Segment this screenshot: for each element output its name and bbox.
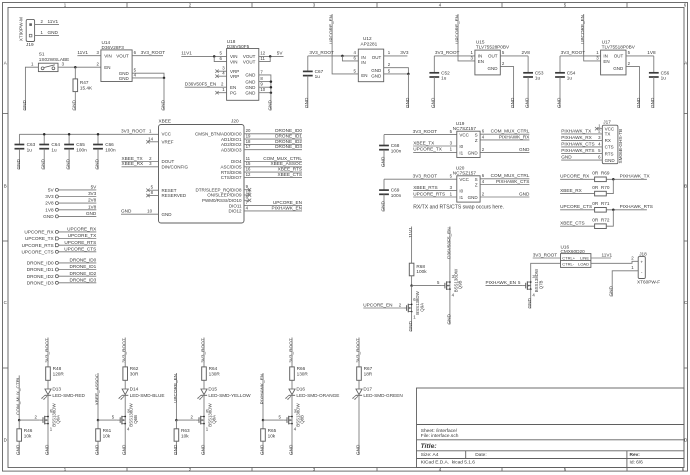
svg-text:ASC/DIO5: ASC/DIO5: [220, 165, 242, 170]
svg-text:XBEE_RX: XBEE_RX: [560, 188, 582, 193]
svg-text:CTRL+: CTRL+: [562, 255, 575, 260]
wire 3V3_ROOT into U15 IN pin 1: [434, 55, 475, 57]
net label 3V3_ROOT at U20: [384, 178, 457, 180]
svg-text:5: 5: [437, 280, 440, 285]
svg-text:4: 4: [246, 205, 249, 210]
svg-text:GND: GND: [119, 76, 130, 81]
svg-text:100n: 100n: [391, 193, 402, 198]
svg-text:5: 5: [518, 280, 521, 285]
svg-text:EN: EN: [230, 85, 236, 90]
U18 GND pins 7-10 wires: [259, 75, 271, 93]
wire DRONE_ID2: [59, 275, 97, 277]
J19 pin 2 wire to 11V1: [35, 24, 59, 26]
wire LED D16 to Q8B drain: [291, 396, 293, 417]
svg-text:5: 5: [354, 68, 357, 73]
svg-text:7: 7: [246, 200, 249, 205]
XBEE pin 9 unconnected: [244, 189, 250, 191]
svg-text:1: 1: [41, 30, 44, 35]
svg-text:UPCORE_RX: UPCORE_RX: [24, 230, 54, 235]
U19 S pin 6 to COM_MUX_CTRL: [480, 133, 529, 135]
svg-text:AP2281: AP2281: [361, 41, 378, 46]
svg-text:1: 1: [450, 147, 453, 152]
svg-text:R67: R67: [364, 366, 373, 371]
wire R67 to LED D17: [358, 380, 360, 389]
svg-text:3V3: 3V3: [400, 50, 409, 55]
svg-text:2V8: 2V8: [522, 50, 531, 55]
svg-text:DRONE_ID0: DRONE_ID0: [27, 261, 54, 266]
svg-text:EN: EN: [104, 65, 110, 70]
svg-text:UPCORE_RTS: UPCORE_RTS: [413, 191, 445, 196]
transistor Q7B BSS138DW: [522, 285, 525, 287]
svg-text:R66: R66: [297, 366, 306, 371]
svg-text:6: 6: [220, 56, 223, 61]
wire UPCORE_RX into R69: [560, 178, 595, 180]
U17 GND pin 2 wire: [626, 67, 640, 73]
svg-text:LED-SMD-YELLOW: LED-SMD-YELLOW: [208, 393, 251, 398]
frame row ticks: [3, 113, 9, 115]
svg-text:DIO12: DIO12: [228, 209, 242, 214]
wire UPCORE_RX: [59, 231, 97, 233]
svg-text:11V1: 11V1: [602, 252, 613, 257]
wire 11V1 into U14 VIN pin 3: [77, 55, 101, 57]
svg-text:5V: 5V: [48, 188, 55, 193]
svg-text:30R: 30R: [130, 371, 139, 376]
svg-text:DRONE_ID3: DRONE_ID3: [69, 277, 96, 282]
wire GND into J17 pin 6: [561, 159, 602, 161]
svg-text:EN: EN: [603, 59, 609, 64]
wire 11V1 into U18 VIN pins 5/6: [181, 55, 226, 57]
svg-text:5V: 5V: [91, 185, 98, 190]
svg-text:UPCORE_EN: UPCORE_EN: [363, 302, 392, 307]
svg-text:130R: 130R: [209, 371, 221, 376]
svg-text:R46: R46: [24, 428, 33, 433]
resistor R66 130R: [290, 367, 295, 380]
svg-text:R65: R65: [268, 428, 277, 433]
svg-text:17: 17: [246, 144, 251, 149]
ground below U15: [513, 73, 515, 108]
svg-text:XT60PW-F: XT60PW-F: [637, 279, 660, 284]
svg-text:4: 4: [482, 179, 485, 184]
svg-text:14: 14: [148, 136, 153, 141]
wire 3V3_ROOT down to R66: [291, 338, 293, 367]
svg-text:D13: D13: [52, 387, 61, 392]
svg-text:4: 4: [439, 3, 442, 8]
svg-text:R61: R61: [103, 428, 112, 433]
svg-text:+: +: [640, 259, 643, 264]
wire LED D14 to Q6B drain: [124, 396, 126, 417]
ground below U14: [163, 78, 165, 111]
svg-text:1: 1: [149, 129, 152, 134]
wire R68 to node: [411, 276, 413, 286]
svg-text:B: B: [4, 184, 7, 189]
svg-text:3V3_ROOT: 3V3_ROOT: [533, 252, 558, 257]
svg-text:VCC: VCC: [459, 177, 469, 182]
ground below C63: [18, 149, 20, 170]
XBEE pin 12 wire to XBEE_CTS: [244, 176, 302, 178]
svg-text:GND: GND: [468, 150, 479, 155]
wire R64 to LED D15: [203, 380, 205, 389]
svg-text:3V3_ROOT: 3V3_ROOT: [413, 129, 438, 134]
svg-text:1u: 1u: [27, 147, 33, 152]
svg-text:XBEE_TX: XBEE_TX: [413, 140, 435, 145]
svg-text:5: 5: [220, 51, 223, 56]
svg-text:3: 3: [450, 140, 453, 145]
svg-text:DRONE_ID2: DRONE_ID2: [275, 139, 302, 144]
svg-text:3V3_ROOT: 3V3_ROOT: [288, 338, 293, 363]
ground below C65: [68, 149, 70, 170]
capacitor C56 1u: [653, 56, 655, 73]
svg-text:9: 9: [260, 82, 263, 87]
svg-text:2: 2: [388, 62, 391, 67]
svg-text:DTR/SLEEP_RQ/DIO8: DTR/SLEEP_RQ/DIO8: [195, 187, 242, 192]
svg-text:PIXHAWK_EN: PIXHAWK_EN: [486, 280, 517, 285]
XBEE RESERVED pin 8 unconnected: [148, 195, 159, 197]
transistor Q9B BSS138DW: [442, 285, 445, 287]
junction node Q9 gate/drain: [410, 284, 413, 287]
svg-text:B: B: [684, 184, 687, 189]
svg-text:PWM0/RSSI/DIO10: PWM0/RSSI/DIO10: [202, 198, 242, 203]
svg-text:1: 1: [31, 62, 34, 67]
svg-text:11V1: 11V1: [77, 50, 88, 55]
wire PIXHAWK_CTS into J17 pin 4: [561, 146, 602, 148]
svg-text:UPCORE_RTS: UPCORE_RTS: [22, 243, 54, 248]
wire 3V3_ROOT down to R48: [47, 338, 49, 367]
svg-text:D36V50F5_EN: D36V50F5_EN: [446, 227, 451, 259]
svg-text:5: 5: [388, 68, 391, 73]
svg-text:TX: TX: [605, 132, 611, 137]
svg-text:6: 6: [482, 129, 485, 134]
svg-text:DIN/CONFIG: DIN/CONFIG: [162, 165, 189, 170]
wire UPCORE_RTS into U20 I1 pin 1: [413, 196, 457, 198]
junction node Q8B gate: [262, 419, 265, 422]
svg-text:15.4K: 15.4K: [80, 86, 93, 91]
svg-text:1: 1: [631, 265, 634, 270]
svg-text:XBEE_CTS: XBEE_CTS: [278, 172, 303, 177]
resistor R61 10k pulldown: [97, 420, 99, 429]
svg-text:UPCORE_EN: UPCORE_EN: [454, 15, 459, 44]
svg-text:GND: GND: [510, 97, 515, 108]
svg-text:GND: GND: [245, 79, 256, 84]
svg-text:GND: GND: [245, 73, 256, 78]
svg-text:XBEE: XBEE: [159, 119, 172, 124]
svg-text:J19: J19: [26, 42, 34, 47]
svg-text:DRONE_ID2: DRONE_ID2: [69, 271, 96, 276]
wire node to Q9B gate: [412, 285, 442, 287]
title block: [417, 388, 685, 468]
svg-text:Sheet: /interface/: Sheet: /interface/: [421, 428, 458, 434]
svg-text:11V1: 11V1: [408, 227, 413, 238]
svg-text:PIXHAWK_EN: PIXHAWK_EN: [259, 374, 264, 405]
resistor R48 120R: [46, 367, 51, 380]
svg-text:KiCad E.D.A. kicad 5.1.6: KiCad E.D.A. kicad 5.1.6: [421, 460, 475, 466]
svg-text:Q8B: Q8B: [300, 415, 305, 424]
XBEE pin 6 unconnected: [244, 199, 250, 201]
svg-text:GND: GND: [259, 444, 264, 455]
svg-text:GND: GND: [22, 99, 27, 110]
svg-text:UPCORE_CTS: UPCORE_CTS: [64, 246, 96, 251]
svg-text:XBEE_ASSOC: XBEE_ASSOC: [270, 161, 302, 166]
svg-text:Q9B: Q9B: [458, 280, 463, 289]
svg-text:1S02WSLABE: 1S02WSLABE: [39, 57, 70, 62]
S1 pin 1 wire: [25, 67, 38, 89]
svg-text:CTRL-: CTRL-: [562, 262, 574, 267]
svg-text:4: 4: [482, 134, 485, 139]
svg-text:C: C: [4, 300, 7, 305]
svg-text:R48: R48: [53, 366, 62, 371]
XBEE pin 13 unconnected: [244, 194, 250, 196]
svg-text:I1: I1: [459, 150, 463, 155]
svg-text:10k: 10k: [24, 434, 32, 439]
wire 3V3_ROOT into U16 CTRL+: [533, 257, 561, 259]
svg-text:18R: 18R: [364, 371, 373, 376]
capacitor C64 1u: [43, 134, 45, 144]
svg-text:GND: GND: [16, 158, 21, 169]
capacitor C54 1u: [559, 56, 561, 73]
wire U16 LOAD to J18 pin 2: [591, 261, 638, 263]
J19 pin 1 wire to GND: [35, 35, 59, 37]
ground below C54: [559, 77, 561, 108]
wire 3V3_ROOT rail to XBEE VCC: [19, 133, 158, 135]
ground below C69: [383, 194, 385, 211]
svg-text:TLV75528P0BV: TLV75528P0BV: [476, 44, 510, 49]
svg-text:DRONE_ID2: DRONE_ID2: [27, 274, 54, 279]
wire GND into XBEE pin 10: [121, 213, 159, 215]
svg-text:GND: GND: [162, 212, 173, 217]
wire PIXHAWK_RX into J17 pin 3: [561, 139, 602, 141]
LED D17 LED-SMD-GREEN: [356, 389, 362, 395]
svg-text:VCC: VCC: [459, 133, 469, 138]
svg-text:2: 2: [189, 3, 192, 8]
XBEE pin 17 wire to DRONE_ID3: [244, 149, 302, 151]
wire PIXHAWK_RTS into J17 pin 5: [561, 153, 602, 155]
svg-text:LED-SMD-GREEN: LED-SMD-GREEN: [363, 393, 402, 398]
svg-text:SM06B-GHS-TB: SM06B-GHS-TB: [618, 129, 623, 164]
wire PIXHAWK_TX into J17 pin 2: [561, 133, 602, 135]
svg-text:1V8: 1V8: [647, 50, 656, 55]
wire UPCORE_EN down to U12 EN pin 5: [332, 14, 358, 74]
XBEE VREF pin 14 unconnected: [148, 141, 159, 143]
svg-text:VIN: VIN: [230, 59, 238, 64]
svg-text:120R: 120R: [53, 371, 65, 376]
wire node to Q6A gate: [19, 419, 40, 421]
svg-text:8: 8: [260, 76, 263, 81]
wire PIXHAWK_EN into Q7B gate: [486, 285, 523, 287]
junction node Q6B gate: [97, 419, 100, 422]
capacitor C52 1u: [433, 56, 435, 73]
wire 3V3_ROOT down to R67: [358, 338, 360, 367]
svg-text:S: S: [475, 132, 478, 137]
svg-text:0R R69: 0R R69: [592, 170, 610, 175]
svg-text:GND: GND: [527, 297, 532, 308]
svg-text:3: 3: [62, 62, 65, 67]
svg-text:R68: R68: [416, 264, 425, 269]
svg-text:2: 2: [631, 256, 634, 261]
svg-text:VREF: VREF: [162, 140, 174, 145]
resistor R64 130R: [202, 367, 207, 380]
svg-text:2: 2: [628, 61, 631, 66]
svg-text:ON/SLEEP/DIO9: ON/SLEEP/DIO9: [207, 193, 242, 198]
svg-text:I0: I0: [459, 144, 463, 149]
svg-text:13: 13: [246, 189, 251, 194]
ground below U18: [270, 93, 272, 111]
svg-text:S1: S1: [39, 51, 45, 56]
ground below C66: [97, 149, 99, 170]
resistor R62 30R: [123, 367, 128, 380]
svg-text:6: 6: [598, 155, 601, 160]
wire 3V3_ROOT into U12 IN pin 4: [308, 55, 359, 57]
U17 OUT pin 5 to 1V8: [626, 55, 654, 57]
resistor R47 15.4K: [74, 67, 76, 79]
ground below C68: [383, 150, 385, 167]
svg-text:COM_MUX_CTRL: COM_MUX_CTRL: [491, 173, 530, 178]
svg-text:AD2/DIO2: AD2/DIO2: [221, 142, 242, 147]
svg-text:OUT: OUT: [614, 54, 624, 59]
ground below C67: [307, 76, 309, 108]
capacitor C66 100n: [97, 134, 99, 144]
svg-text:J20: J20: [231, 119, 239, 124]
svg-text:UPCORE_EN: UPCORE_EN: [273, 200, 302, 205]
wire UPCORE_EN down to U17 EN pin 3: [584, 14, 601, 61]
wire UPCORE_CTS: [59, 251, 97, 253]
svg-text:GND: GND: [72, 99, 77, 110]
svg-text:DRONE_ID1: DRONE_ID1: [275, 134, 302, 139]
svg-text:3: 3: [313, 3, 316, 8]
svg-text:5: 5: [502, 50, 505, 55]
wire 3V3: [59, 196, 97, 198]
svg-text:130R: 130R: [297, 371, 309, 376]
resistor R68 100k: [409, 263, 414, 276]
svg-text:GND: GND: [66, 158, 71, 169]
wire LED D15 to Q8A drain: [203, 396, 205, 417]
svg-text:2: 2: [502, 61, 505, 66]
svg-text:EN: EN: [478, 59, 484, 64]
wire node to Q8B gate: [263, 419, 284, 421]
svg-text:0R R70: 0R R70: [592, 185, 610, 190]
svg-text:XBEE_RTS: XBEE_RTS: [413, 185, 437, 190]
svg-text:GND: GND: [371, 73, 382, 78]
LED D13 LED-SMD-RED: [45, 389, 51, 395]
svg-text:100k: 100k: [416, 269, 427, 274]
svg-text:GND: GND: [44, 444, 49, 455]
svg-text:XBEE_RTS: XBEE_RTS: [278, 167, 302, 172]
svg-text:GND: GND: [267, 99, 272, 110]
svg-text:GND: GND: [446, 313, 451, 324]
wire 11V1 down to R68: [411, 227, 413, 264]
wire S1 pin 3 to U14 EN: [58, 66, 101, 68]
svg-text:GND: GND: [160, 99, 165, 110]
ground below C52: [433, 77, 435, 108]
XBEE pin 18 wire to DRONE_ID2: [244, 143, 302, 145]
wire XBEE_ASSOC down to gate node: [97, 373, 99, 420]
svg-text:UPCORE_TX: UPCORE_TX: [25, 236, 55, 241]
svg-text:GND: GND: [525, 97, 530, 108]
XBEE pin 7 wire to UPCORE_EN: [244, 205, 302, 207]
svg-text:12: 12: [260, 51, 265, 56]
ground below J18: [611, 284, 613, 296]
svg-text:3V3_ROOT: 3V3_ROOT: [121, 129, 146, 134]
svg-text:VRP: VRP: [230, 74, 239, 79]
svg-text:1V8: 1V8: [45, 207, 54, 212]
svg-text:GND: GND: [94, 158, 99, 169]
svg-text:GND: GND: [380, 200, 385, 211]
svg-text:NC7SZ157: NC7SZ157: [453, 126, 477, 131]
wire COM_MUX_CTRL down to gate node: [18, 375, 20, 420]
capacitor C68 100n: [383, 135, 385, 146]
svg-text:5V: 5V: [277, 51, 284, 56]
U15 GND pin 2 wire: [500, 67, 513, 73]
capacitor C53 1u: [527, 56, 529, 73]
svg-text:0R R71: 0R R71: [592, 201, 610, 206]
svg-text:Q8A: Q8A: [212, 415, 217, 424]
svg-text:PIXHAWK_RTS: PIXHAWK_RTS: [620, 204, 653, 209]
U18 PG pin 1 unconnected: [217, 92, 227, 94]
svg-text:D17: D17: [363, 387, 372, 392]
svg-text:OUT: OUT: [488, 54, 498, 59]
U16 LINE to 11V1: [591, 257, 611, 259]
svg-text:5: 5: [564, 3, 567, 8]
ground below R47: [74, 92, 76, 111]
svg-text:CMSN_BTN/AD0/DIO0: CMSN_BTN/AD0/DIO0: [195, 132, 242, 137]
svg-text:XT90PW-M: XT90PW-M: [19, 17, 24, 41]
svg-text:1u: 1u: [567, 76, 573, 81]
svg-text:UPCORE_RTS: UPCORE_RTS: [64, 240, 96, 245]
svg-text:C: C: [684, 300, 687, 305]
transistor Q6B BSS138DW: [117, 419, 120, 421]
svg-text:GND: GND: [556, 97, 561, 108]
svg-text:GND: GND: [519, 191, 530, 196]
ground below U17: [639, 73, 641, 108]
svg-text:GND: GND: [173, 444, 178, 455]
svg-text:GND: GND: [468, 195, 479, 200]
svg-text:GND: GND: [121, 209, 132, 214]
svg-text:A: A: [684, 61, 687, 66]
junction node at R47: [74, 66, 77, 69]
ground below C64: [43, 149, 45, 170]
XBEE pin 20 wire to DRONE_ID0: [244, 133, 302, 135]
svg-text:LOAD: LOAD: [578, 262, 589, 267]
svg-text:GND: GND: [605, 158, 616, 163]
U12 IN pin 6 stub: [342, 56, 358, 61]
svg-text:2: 2: [482, 147, 485, 152]
svg-text:10k: 10k: [103, 434, 111, 439]
svg-text:1u: 1u: [661, 76, 667, 81]
U18 VRP pins 3/4 unconnected: [217, 70, 227, 72]
svg-text:3: 3: [598, 135, 601, 140]
svg-text:GND: GND: [405, 97, 410, 108]
svg-text:3V3_ROOT: 3V3_ROOT: [200, 338, 205, 363]
svg-text:1u: 1u: [51, 147, 57, 152]
XBEE pin 4 wire to PIXHAWK_EN: [244, 210, 302, 212]
svg-text:OUT: OUT: [372, 55, 382, 60]
capacitor C67 1u: [307, 56, 309, 72]
U20 GND pin 2 wire: [480, 196, 529, 198]
svg-text:100n: 100n: [391, 148, 402, 153]
XBEE RESET pin 5 unconnected: [148, 189, 159, 191]
svg-text:RESERVED: RESERVED: [162, 193, 187, 198]
svg-text:GND: GND: [41, 158, 46, 169]
svg-text:UPCORE_CTS: UPCORE_CTS: [560, 204, 592, 209]
svg-text:D14: D14: [130, 387, 139, 392]
svg-text:D: D: [4, 438, 7, 443]
svg-text:11V1: 11V1: [181, 51, 192, 56]
svg-text:3V3: 3V3: [45, 194, 54, 199]
svg-text:2: 2: [41, 19, 44, 24]
wire UPCORE_EN down to U15 EN pin 3: [458, 14, 475, 61]
junction node Q6A gate: [18, 419, 21, 422]
wire node down to Q9A drain: [411, 286, 413, 305]
svg-text:Q7B: Q7B: [538, 280, 543, 289]
XBEE pin 16 wire to XBEE_RTS: [244, 171, 302, 173]
